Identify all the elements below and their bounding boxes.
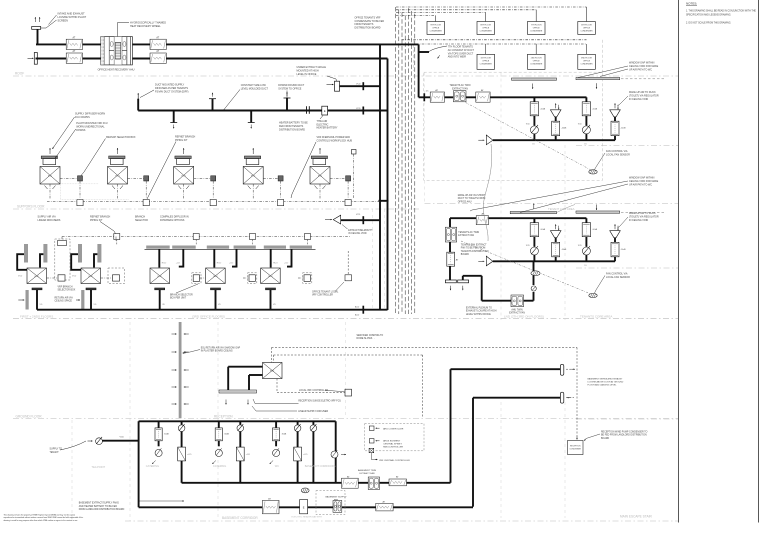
svg-text:TEA POINT: TEA POINT [92,465,106,469]
stair shaft diffuser bar [179,322,182,418]
svg-text:DISTRIBUTION BOARD: DISTRIBUTION BOARD [279,128,305,131]
svg-text:FCU: FCU [318,176,323,178]
right column level2 branches [493,260,615,262]
supply line attenuator right [376,503,393,511]
svg-text:BASEMENT EXTRACT/SUPPLY FANS: BASEMENT EXTRACT/SUPPLY FANS [79,502,120,505]
svg-text:FCU: FCU [115,176,120,178]
svg-text:HEAT RECOVERY WHEEL: HEAT RECOVERY WHEEL [130,25,161,28]
svg-text:6TH FLOOR: 6TH FLOOR [581,25,592,27]
reception condenser dash drop [576,348,578,437]
svg-text:-50dB: -50dB [621,249,627,251]
bellmouth line to riser [341,219,380,221]
basement heater branch 1 [181,421,183,425]
svg-text:BRANCH SELECTOR: BRANCH SELECTOR [170,294,193,297]
zone divider vertical x424 [424,73,426,204]
svg-text:3RD FLOOR: 3RD FLOOR [581,58,592,60]
bus drop FCU2 [115,237,117,242]
svg-text:LEVEL WITHIN OFFICE: LEVEL WITHIN OFFICE [466,314,491,316]
refrigerant bus 10th floor [47,201,388,203]
branch selector box row1 4 [263,177,278,179]
svg-text:+CO: +CO [246,454,251,456]
svg-text:FCU: FCU [270,371,275,373]
basement heater branch 3 [297,421,299,425]
svg-text:IN CEILING VOID: IN CEILING VOID [348,233,367,235]
svg-text:BOARD: BOARD [601,437,610,440]
svg-text:OFFICE: OFFICE [482,61,490,63]
basement supply branch 2 [218,421,220,428]
ahu fan right link [524,300,534,302]
FCU office 1 [27,268,47,284]
serviced dash line 1 [272,347,578,349]
zone line right mid2 [576,267,678,269]
bus node row1 5 [345,200,351,206]
svg-text:SCREEN: SCREEN [58,19,69,22]
svg-text:VRF CONTROLLER: VRF CONTROLLER [312,295,333,297]
svg-text:SUPPLY TO: SUPPLY TO [50,449,63,451]
svg-text:FIRST + 2NDS FLOORS: FIRST + 2NDS FLOORS [20,315,53,319]
svg-text:DOWNWAS OPTIONS: DOWNWAS OPTIONS [160,219,185,222]
svg-text:BASEMENT CORRIDOR: BASEMENT CORRIDOR [222,516,258,520]
exhaust louvre E1 [32,27,41,30]
bus node row1 1 [77,200,83,206]
zone line ground floor [13,418,678,420]
svg-text:TENANT: TENANT [50,451,60,454]
svg-text:TENANTS AC TWIN: TENANTS AC TWIN [458,231,479,234]
basement supply branch 3 [275,421,277,428]
fan line level 1 [419,96,587,98]
reception fcu controller dash [277,379,345,393]
svg-text:DOWNS: DOWNS [76,129,86,132]
svg-text:OFFICE: OFFICE [482,27,490,29]
svg-text:VCD: VCD [72,276,77,278]
svg-text:30dB: 30dB [282,434,287,436]
svg-text:OFFICE: OFFICE [533,27,541,29]
extract grille G1 [335,81,340,91]
svg-text:CONDENSER: CONDENSER [569,448,581,450]
dashed rects mid row [192,273,201,284]
return diffuser bars left [26,290,29,310]
FCU office mid 3 [261,268,281,284]
svg-text:CONDENSER: CONDENSER [580,30,593,32]
svg-text:EXTRACT BELMOUTH: EXTRACT BELMOUTH [348,229,372,232]
control wire bundle riser [395,7,397,314]
wavy leader curve [483,144,491,241]
svg-text:SUPPORS FLOOR: SUPPORS FLOOR [17,205,45,209]
vertical diffuser bars FCU1 [24,244,28,263]
svg-text:DOME SLOWS →: DOME SLOWS → [357,338,376,340]
dashed vert x413 rectA [412,40,414,71]
svg-text:HCO: HCO [273,263,278,265]
condenser bus row 2a [402,39,587,41]
silencer AT1 [66,39,82,49]
svg-text:FLOOR AND LANDING LEVEL: FLOOR AND LANDING LEVEL [588,384,618,387]
transfer duct lower L [473,397,560,399]
supply fan dashed rect [316,491,345,515]
branch selector box row1 5 [330,177,346,179]
svg-text:FCU DOWNS: FCU DOWNS [75,116,90,119]
dashed rect office zone B [424,72,603,180]
office extract main [37,309,388,311]
silencer fan line 2 [476,92,490,102]
extract bellmouth office [333,215,341,224]
svg-text:EXTRACT FAN: EXTRACT FAN [458,234,474,237]
branch tick T2 up [212,99,214,111]
svg-text:CATERING: CATERING [146,464,159,468]
dashed vert x602 upper [602,40,604,72]
svg-text:PIPING KIT: PIPING KIT [90,219,103,222]
svg-text:GROUND FLOOR: GROUND FLOOR [16,415,43,419]
basement supply fan [333,501,342,513]
svg-text:FAN CONTROLLER: FAN CONTROLLER [383,446,403,449]
floor supply main duct [138,110,387,112]
diffuser hook left FCU1 [17,254,27,270]
fan control sensor ellipse upper [589,170,597,174]
svg-text:9TH FLOOR: 9TH FLOOR [430,25,441,27]
svg-text:CONDENSER: CONDENSER [580,63,593,65]
silencer level2 [476,216,488,225]
svg-text:OFFICE: OFFICE [533,61,541,63]
svg-text:CONDENSER: CONDENSER [480,30,493,32]
riser extract R2 [387,59,389,311]
svg-text:MAKE-UP AIR VIA SHORT: MAKE-UP AIR VIA SHORT [458,194,486,197]
svg-text:FAN: FAN [334,499,339,502]
svg-text:EXTRACT FAN: EXTRACT FAN [359,472,374,475]
FCU row1 bus drop 4 [252,184,254,198]
svg-text:BOX PER UNIT: BOX PER UNIT [170,298,187,300]
FCU office mid 2 [206,268,226,284]
svg-text:-50dB: -50dB [592,108,598,110]
svg-text:AHU TWIN: AHU TWIN [511,309,523,312]
riser bridge at y200 [379,200,389,202]
svg-text:reproduced or transmitted with: reproduced or transmitted without writte… [4,516,84,519]
tenants ac drop pipe [380,43,419,45]
svg-text:SERVICED COMPNIA TO: SERVICED COMPNIA TO [357,334,384,337]
silencer AT3 [150,39,166,49]
FCU row1 bus drop 3 [183,184,185,198]
basement right drop duct [335,421,337,483]
svg-text:EXTRACT FAN: EXTRACT FAN [452,87,468,90]
zone divider vertical x565 [564,145,566,320]
local vrf controller box [345,389,352,396]
ceiling bar right upper [576,78,620,80]
branch selector office 2 [113,275,120,281]
svg-text:2ND FLOOR: 2ND FLOOR [531,58,542,60]
legend item central spinet fan controller [369,439,374,443]
svg-text:LOCAL FAN SENSOR: LOCAL FAN SENSOR [606,276,630,279]
svg-text:-50dB: -50dB [621,128,627,130]
zone line roof [13,75,678,77]
svg-text:NOTES:: NOTES: [686,2,697,6]
condenser bus rows roof [396,6,587,8]
svg-text:VRF BRANCH: VRF BRANCH [58,286,73,289]
svg-text:EXTERNAL PLENUM TO: EXTERNAL PLENUM TO [466,307,492,310]
vertical diffuser bars FCU2 [78,244,82,263]
svg-text:1. THIS DRAWING SHALL BE REA: 1. THIS DRAWING SHALL BE READ IN CONJUNC… [686,9,756,12]
supply ellipse damper [301,488,309,493]
svg-text:BE FED FROM LANDLORD DISTR: BE FED FROM LANDLORD DISTRIBUTION [601,434,647,437]
branch selector box row1 3 [194,177,211,179]
legend item vrf central controller [369,448,374,452]
basement supply branch 1 [158,421,160,428]
branch tick T1 [173,111,175,123]
svg-text:8TH FLOOR: 8TH FLOOR [480,25,491,27]
svg-text:OFFICE HEAT RECOVERY AHU: OFFICE HEAT RECOVERY AHU [98,69,135,72]
branch boxes mid row [193,275,199,282]
dashed rect branch FCU2 [108,268,125,284]
svg-text:FCU: FCU [35,276,40,278]
FCU row1 unit 3 [174,148,194,189]
office bus nodes [114,234,120,240]
svg-text:TENANTS CORE AREA: TENANTS CORE AREA [580,315,612,319]
zone divider vertical x218 [217,322,219,518]
svg-text:HCO: HCO [162,263,167,265]
vcd tick office main [362,306,364,314]
svg-text:AND HEATER BATTERY TO BE: AND HEATER BATTERY TO BE FED [79,505,118,508]
reception condenser box [568,441,584,455]
condenser boxes row 2 [485,44,487,54]
condensate stub [419,51,429,53]
FCU office 2 [81,268,101,284]
svg-text:(3RD OFFICE FLOORS): (3RD OFFICE FLOORS) [192,315,225,319]
vcd tick supply main [362,107,364,115]
vcd tick fan line [423,93,425,101]
svg-text:VCD: VCD [18,276,23,278]
svg-text:7TH FLOOR: 7TH FLOOR [531,25,542,27]
svg-text:OFFICE: OFFICE [583,27,591,29]
svg-text:IN CEILING VOID: IN CEILING VOID [629,98,648,101]
svg-text:FROM LANDLORD DISTRIBUTION: FROM LANDLORD DISTRIBUTION BOARD [79,508,125,511]
ahu twin extract fan [511,295,524,307]
FCU row1 bus drop 2 [117,184,119,198]
branch selector office 1 [58,275,65,281]
FCU row1 unit 4 [243,148,263,189]
svg-text:+CO: +CO [229,263,234,265]
vcd tick extract [362,82,364,90]
extract attenuator box [389,479,407,486]
zone line 10th floor [13,208,420,210]
svg-text:-50dB: -50dB [561,128,567,130]
ceiling slot bar mid left [510,212,556,214]
svg-text:CENTRAL SPINET: CENTRAL SPINET [383,443,402,446]
svg-text:FCU: FCU [268,276,273,278]
svg-text:TENANTS DISTRIBUTION: TENANTS DISTRIBUTION [461,250,489,253]
diffuser hook right FCU2 [94,254,97,267]
serviced dash line 2 [274,354,423,356]
slot bar gray segments [146,246,170,249]
zone divider vertical x130 [129,322,131,521]
bus drop FCU1 [61,237,63,242]
svg-text:VCD: VCD [120,436,125,438]
svg-text:LOCAL VRF CONTROLLER: LOCAL VRF CONTROLLER [299,389,328,392]
svg-text:RECEPTION: RECEPTION [214,415,233,419]
svg-text:FCU: FCU [48,176,53,178]
duct supply main roof [36,43,380,45]
office refrigerant bus [62,236,351,238]
basement twin extract fan [368,477,379,490]
sheet right border [758,0,760,523]
svg-text:ROOF: ROOF [15,72,24,76]
reception duct outer L [228,366,262,368]
shaft dashed walls [372,209,374,309]
svg-text:WC: WC [275,464,279,468]
slot bar thick drops [158,249,160,268]
reception slot diffuser bar [219,390,257,393]
svg-text:OFFICE TENANT LOCAL: OFFICE TENANT LOCAL [312,291,339,294]
svg-text:30dB: 30dB [224,434,229,436]
FCU row1 unit 1 [40,148,60,189]
svg-text:CONTROLS WORK/FLSCK HUB: CONTROLS WORK/FLSCK HUB [317,139,353,142]
basement fans fed arrow [139,500,184,502]
right column level1 branches [493,139,615,141]
exhaust louvre bars [445,280,456,283]
svg-text:CEILING SPACE: CEILING SPACE [55,300,73,303]
svg-text:CATERING: CATERING [213,464,226,468]
bus node row1 4 [278,200,284,206]
svg-text:EXTRACT FAN: EXTRACT FAN [509,312,525,315]
silencer AT4 [150,53,166,63]
svg-text:UP AIR PATH TO WC: UP AIR PATH TO WC [629,68,652,71]
tenants ac twin extract fan upper [453,91,466,102]
svg-text:RECEPTION: RECEPTION [570,446,581,448]
svg-text:LEVEL MOULDED DUCT: LEVEL MOULDED DUCT [241,87,269,90]
svg-text:LINEAR DIFFUSERS: LINEAR DIFFUSERS [38,219,61,222]
ceiling slot bar upper left [512,78,557,80]
svg-text:1/C: 1/C [426,91,430,93]
reception duct inner L [249,374,263,376]
svg-text:AND INTO WEIR: AND INTO WEIR [448,56,467,59]
condensate leader curve [429,46,447,52]
riser supply R1 [379,44,381,310]
svg-text:RECEPTION SUNGE ELETRO VRF: RECEPTION SUNGE ELETRO VRF FCU [298,400,341,402]
supply drop arrow [137,93,139,99]
svg-text:BASEMENT SSHWS AHU EXHAUST: BASEMENT SSHWS AHU EXHAUST [588,378,624,381]
svg-text:+CO: +CO [187,454,192,456]
svg-text:-50dB: -50dB [592,229,598,231]
zone line right mid1 [576,145,678,147]
svg-text:VCD: VCD [356,214,361,216]
svg-text:E: E [324,109,326,113]
extract grille line [340,85,381,87]
ahu extract hook from louvre [462,276,464,280]
svg-text:CONDENSER: CONDENSER [430,30,443,32]
zone line basement bottom [125,520,678,522]
svg-text:SYSTEM TO OFFICE: SYSTEM TO OFFICE [278,87,302,90]
svg-text:-50dB: -50dB [540,229,546,231]
svg-text:FCU: FCU [182,176,187,178]
svg-text:EXHAUST LOUVRE AT HIGH: EXHAUST LOUVRE AT HIGH [466,310,497,313]
branch tick T3 [250,111,252,123]
svg-text:DUCT TO TOILETS FROM: DUCT TO TOILETS FROM [458,198,486,200]
svg-text:E: E [303,506,305,510]
svg-text:ACD: ACD [355,306,360,309]
svg-text:OFFICE AHU: OFFICE AHU [458,200,472,203]
zone divider vertical x72 [71,420,73,521]
basement main top duct [139,420,336,422]
svg-text:BASEMENT CORRIDORS: BASEMENT CORRIDORS [305,464,336,468]
svg-text:BRANCH SELECTOR BOX: BRANCH SELECTOR BOX [106,136,136,139]
svg-text:SELECTOR: SELECTOR [135,219,148,222]
svg-text:FCU: FCU [213,276,218,278]
basement extract collector [182,482,451,484]
FCU office mid 1 [150,268,170,284]
svg-text:FCU: FCU [251,176,256,178]
silencer AT2 [66,53,82,63]
svg-text:+CO: +CO [303,454,308,456]
FCU row1 bus drop 1 [49,184,51,198]
svg-text:30dB: 30dB [164,434,169,436]
FCU row1 bus drop 5 [319,184,321,198]
svg-text:FCU: FCU [89,276,94,278]
svg-text:LOCAL FAN SENSOR: LOCAL FAN SENSOR [606,153,630,156]
return grilles and drops [32,288,42,290]
AHU heat recovery unit U1 [101,37,133,66]
svg-text:FCU: FCU [158,276,163,278]
svg-text:IN PLASTER BOARD CEILING: IN PLASTER BOARD CEILING [201,350,233,353]
supply silencer basement [262,500,279,513]
basement branch 4 damper [312,421,314,425]
diffuser hook right FCU1 [40,254,43,267]
ceiling bar right level2 [576,211,620,213]
svg-text:ESL RETURN AIR VIA SHADOW: ESL RETURN AIR VIA SHADOW GAP [201,347,241,350]
extract silencer basement [342,478,359,488]
condensate dotted path row1 [61,183,99,185]
branch selector box row1 2 [128,177,144,179]
svg-text:AHU CONTROLLER: AHU CONTROLLER [383,427,404,430]
zone line tenants core upper [425,203,679,205]
fan control sensor level2 [461,241,591,294]
svg-text:CONDENSER: CONDENSER [480,63,493,65]
basement left duct [138,421,140,507]
reception fcu [263,363,283,379]
svg-text:VCD: VCD [356,84,361,86]
office tenant local vrf controller box [345,275,352,281]
louvre arrows [34,17,36,22]
svg-text:LND (2TH 3RD ON FLOORS): LND (2TH 3RD ON FLOORS) [504,315,544,319]
fan line level 2 [450,217,586,219]
vcd tick bellmouth line [362,216,364,224]
branch selector box row1 1 [60,177,78,179]
condenser bus row 2b [404,43,587,45]
silencer fan line 1 [430,92,444,102]
svg-text:ACD: ACD [355,314,360,317]
fan control sensor dash line upper [461,100,591,170]
dashed rect branch FCU1 [55,239,70,280]
svg-text:CONDENSER: CONDENSER [530,30,543,32]
svg-text:MAIN ESCAPE STAIR: MAIN ESCAPE STAIR [620,514,653,518]
svg-text:HCO: HCO [217,263,222,265]
svg-text:ELECTRIC HEATER BATTERY: ELECTRIC HEATER BATTERY [292,516,323,519]
fire damper capsule 1 [560,364,563,375]
extract circle vent [331,451,338,458]
svg-text:RECEPTION WIND PUMP CONDENS: RECEPTION WIND PUMP CONDENSER TO [601,432,648,434]
svg-text:HEATER BATTERY: HEATER BATTERY [317,127,338,130]
zone line right ground [576,418,678,420]
zone divider vertical x501 [500,73,502,321]
svg-text:LEVEL IN OFFICE: LEVEL IN OFFICE [297,73,317,76]
svg-text:BASEMENT SUPPLY: BASEMENT SUPPLY [325,496,347,499]
svg-text:This drawing remains the prope: This drawing remains the property of XNM… [4,513,76,516]
svg-text:RETURN AIR VIA: RETURN AIR VIA [55,297,74,300]
svg-text:BOARD: BOARD [461,253,470,256]
supply heater basement [300,500,308,514]
svg-text:UP AIR PATH TO WC: UP AIR PATH TO WC [629,183,652,186]
diffuser hook left FCU2 [71,254,81,270]
svg-text:2. DO NOT SCALE FROM THIS DR: 2. DO NOT SCALE FROM THIS DRAWING. [686,22,731,25]
svg-text:BASEMENT TWIN: BASEMENT TWIN [358,469,377,472]
svg-text:SPECIFICATION AND LEGEND DRAWI: SPECIFICATION AND LEGEND DRAWING. [686,14,732,17]
svg-text:-50dB: -50dB [561,249,567,251]
FCU row1 unit 5 [310,148,330,189]
